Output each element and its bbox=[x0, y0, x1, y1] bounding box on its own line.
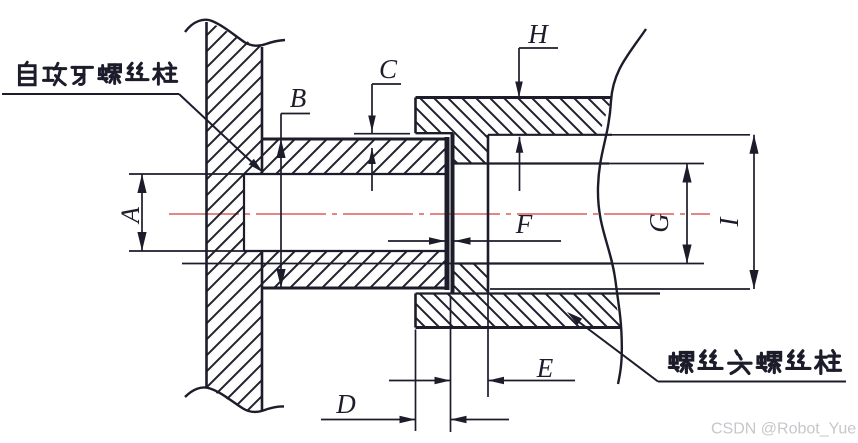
dim B line bbox=[280, 114, 282, 289]
dim I arrow down bbox=[749, 270, 758, 289]
dim A arrow down bbox=[137, 232, 146, 251]
label self-tapping screw boss underline bbox=[2, 93, 179, 95]
dim C extension line bbox=[354, 133, 410, 135]
post outer top surface bbox=[416, 96, 613, 99]
svg-text:F: F bbox=[515, 209, 533, 239]
dim H lower arrow line bbox=[519, 137, 521, 191]
leader arrowhead to post bbox=[567, 312, 582, 325]
svg-text:A: A bbox=[116, 207, 145, 225]
post break curve bbox=[598, 29, 646, 384]
label self-tapping screw boss text bbox=[19, 62, 35, 85]
dim D arrow right bbox=[400, 416, 416, 424]
dim B bracket bbox=[281, 113, 310, 115]
hole G bottom edge bbox=[455, 262, 613, 264]
wall top break line bbox=[185, 20, 285, 46]
dim C upper arrow line bbox=[371, 84, 373, 135]
dim E extension line bbox=[487, 294, 489, 398]
dim E arrow left bbox=[488, 377, 504, 385]
dim G arrow down bbox=[682, 245, 691, 264]
dim A bottom extension bbox=[129, 250, 244, 252]
post inner bottom extension bbox=[490, 288, 750, 290]
wall right edge upper bbox=[261, 47, 264, 174]
label screw head post underline bbox=[658, 381, 846, 383]
post left end face lower bbox=[414, 294, 417, 328]
hole G bottom extension bbox=[613, 263, 704, 265]
dim H arrow up bbox=[516, 137, 524, 153]
dim A line bbox=[141, 174, 143, 251]
dim I arrow up bbox=[749, 135, 758, 154]
dim H bracket bbox=[519, 47, 558, 49]
dim D extension line right bbox=[450, 296, 452, 432]
dim B arrow up bbox=[276, 139, 285, 158]
leader arrowhead bbox=[249, 159, 263, 173]
hole A bottom edge bbox=[244, 250, 447, 252]
centerline bbox=[169, 213, 710, 215]
dim F line left tail bbox=[388, 240, 445, 242]
ring right face bbox=[487, 135, 490, 294]
dim D line right tail bbox=[451, 419, 510, 421]
dim I line bbox=[753, 135, 755, 289]
dim C bracket bbox=[372, 83, 401, 85]
dim G arrow up bbox=[682, 164, 691, 183]
dim B arrow down bbox=[276, 269, 285, 288]
dim A arrow up bbox=[137, 174, 146, 193]
post outer bottom surface bbox=[416, 326, 623, 329]
hole G bottom line bbox=[182, 263, 455, 265]
hole A top edge bbox=[244, 173, 447, 175]
dim E line left tail bbox=[389, 380, 451, 382]
leader to post bbox=[573, 318, 658, 382]
dim C arrow down bbox=[368, 116, 376, 132]
dim F arrow left bbox=[455, 237, 471, 245]
svg-text:CSDN @Robot_Yue: CSDN @Robot_Yue bbox=[711, 421, 856, 438]
dim D arrow left bbox=[451, 416, 467, 424]
svg-text:B: B bbox=[290, 83, 307, 113]
wall bottom break line bbox=[185, 387, 284, 412]
post inner top extension bbox=[612, 134, 750, 136]
dim F line right tail bbox=[455, 240, 562, 242]
dim E line right tail bbox=[488, 380, 575, 382]
dim H upper arrow line bbox=[518, 48, 520, 98]
svg-text:H: H bbox=[527, 19, 549, 49]
svg-text:C: C bbox=[379, 54, 398, 84]
dim D line left tail bbox=[321, 419, 416, 421]
hole G top extension bbox=[609, 163, 704, 165]
dim C lower arrow line bbox=[371, 148, 373, 191]
svg-text:E: E bbox=[536, 353, 554, 383]
leader to wall bbox=[179, 94, 257, 167]
post counterbore top edge bbox=[488, 134, 612, 136]
boss bottom outer surface bbox=[262, 287, 449, 290]
dim G line bbox=[686, 164, 688, 264]
dim F arrow right bbox=[429, 237, 445, 245]
boss top outer surface bbox=[262, 138, 449, 141]
ring left face bbox=[451, 133, 455, 293]
wall left edge bbox=[205, 22, 208, 388]
boss end face bbox=[445, 137, 450, 290]
dim A top extension bbox=[129, 173, 244, 175]
svg-text:D: D bbox=[335, 389, 356, 419]
post inner bottom surface I bbox=[416, 292, 661, 294]
post left end face upper bbox=[414, 98, 417, 134]
hole A floor bbox=[243, 174, 245, 251]
svg-text:G: G bbox=[644, 213, 674, 233]
dim E arrow right bbox=[435, 377, 451, 385]
hole G top edge bbox=[453, 162, 610, 164]
dim C arrow up bbox=[368, 148, 376, 164]
dim H arrow down bbox=[515, 82, 523, 98]
dim D extension line left bbox=[415, 330, 417, 432]
wall right edge lower bbox=[261, 251, 264, 411]
label screw head post text bbox=[669, 352, 692, 372]
post inner top surface I bbox=[416, 132, 454, 134]
